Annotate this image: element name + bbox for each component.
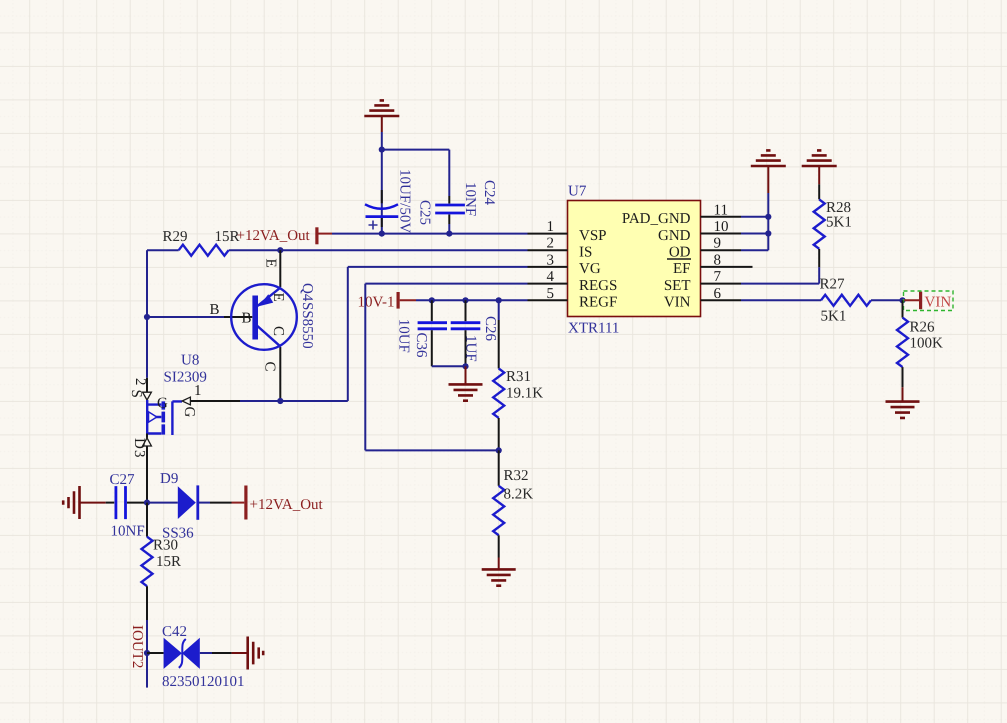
- svg-text:15R: 15R: [156, 554, 181, 570]
- svg-text:10UF: 10UF: [396, 319, 412, 353]
- wire: C24 bottom to VSP net: [448, 224, 450, 234]
- junction at Q4 emitter: [277, 247, 283, 253]
- junction below C26: [462, 363, 468, 369]
- resistor R31: [493, 300, 543, 450]
- diode D9: [160, 471, 232, 542]
- svg-text:10: 10: [714, 219, 729, 235]
- svg-text:C26: C26: [482, 316, 498, 342]
- resistor R26: [897, 300, 943, 387]
- svg-text:GND: GND: [658, 228, 691, 244]
- svg-text:100K: 100K: [910, 336, 944, 352]
- pin 8: [701, 252, 753, 268]
- svg-text:E: E: [270, 293, 286, 302]
- ground GND-top (above C25): [364, 100, 399, 132]
- power port 10V-1: [358, 292, 416, 311]
- capacitor C25 (polarized): [365, 169, 433, 233]
- resistor R27: [820, 277, 871, 325]
- power port +12VA_Out (top): [237, 227, 333, 244]
- svg-text:D9: D9: [160, 471, 178, 487]
- wire net IS: R29 to pin2: [280, 249, 527, 251]
- svg-text:U8: U8: [181, 353, 199, 369]
- svg-text:C: C: [261, 362, 277, 372]
- svg-text:G: G: [181, 407, 197, 418]
- TVS C42: [162, 624, 245, 690]
- pin 1: [528, 219, 568, 235]
- svg-text:19.1K: 19.1K: [506, 385, 543, 401]
- power port +12VA_Out (bottom): [232, 486, 324, 520]
- svg-text:8: 8: [714, 252, 722, 268]
- junction C26: [462, 297, 468, 303]
- junction at U8 drain / C27 / D9 / R30: [144, 500, 150, 506]
- svg-text:C: C: [270, 326, 286, 336]
- wire net VSP: port to pin1: [332, 233, 528, 235]
- pin 6: [701, 286, 742, 302]
- pin 4: [528, 269, 568, 285]
- svg-text:R29: R29: [163, 229, 188, 245]
- svg-text:D: D: [131, 438, 147, 449]
- svg-text:SET: SET: [664, 278, 691, 294]
- ground at C42 (right, rotated): [232, 637, 264, 670]
- svg-text:2: 2: [547, 236, 555, 252]
- svg-text:EF: EF: [673, 261, 691, 277]
- svg-text:VSP: VSP: [579, 228, 607, 244]
- ground at C27 (left, rotated): [63, 486, 105, 519]
- ground below R32: [482, 558, 516, 586]
- wire net VG: pin3 to Q4 collector / U8 gate: [240, 267, 528, 401]
- svg-text:5K1: 5K1: [821, 308, 847, 324]
- ground below R26: [886, 387, 920, 418]
- capacitor C24: [435, 180, 497, 224]
- svg-text:REGS: REGS: [579, 278, 617, 294]
- svg-text:VG: VG: [579, 261, 601, 277]
- wire pin6 to R27: [741, 299, 821, 301]
- junction C36: [429, 297, 435, 303]
- pin 7: [701, 269, 742, 285]
- junction at C25 top: [379, 147, 385, 153]
- wire C36 bottom to C26 bottom: [432, 365, 466, 367]
- svg-text:10V-1: 10V-1: [358, 295, 395, 311]
- wire: gnd stem to C25/C24 tee: [382, 132, 450, 234]
- svg-text:10NF: 10NF: [462, 182, 478, 216]
- junction R31: [496, 297, 502, 303]
- ground above R28: [802, 150, 837, 184]
- svg-text:PAD_GND: PAD_GND: [622, 211, 691, 227]
- ground below C26: [449, 366, 483, 400]
- junction C25 bottom: [379, 231, 385, 237]
- svg-text:VIN: VIN: [664, 295, 691, 311]
- transistor Q4: [210, 250, 316, 401]
- capacitor C27: [106, 472, 147, 540]
- junction pin11: [765, 214, 771, 220]
- svg-text:1UF: 1UF: [462, 335, 478, 362]
- resistor R32: [493, 450, 533, 557]
- svg-text:5: 5: [547, 286, 555, 302]
- capacitor C26: [451, 300, 498, 366]
- pin 9: [701, 236, 742, 252]
- svg-text:IOUT2: IOUT2: [129, 625, 145, 668]
- svg-text:6: 6: [714, 286, 722, 302]
- pin 11: [701, 202, 742, 218]
- svg-text:C27: C27: [110, 472, 136, 488]
- svg-text:C24: C24: [481, 180, 497, 206]
- svg-text:3: 3: [547, 252, 555, 268]
- svg-text:Q4: Q4: [299, 283, 315, 302]
- wire R28 to pin7: [741, 267, 819, 283]
- svg-text:OD: OD: [669, 245, 691, 261]
- svg-text:10UF/50V: 10UF/50V: [397, 169, 413, 233]
- svg-text:82350120101: 82350120101: [162, 674, 245, 690]
- junction VIN node: [899, 297, 905, 303]
- svg-text:C36: C36: [413, 333, 429, 359]
- capacitor C36: [396, 300, 448, 366]
- svg-text:1: 1: [194, 383, 202, 399]
- wire R27 to VIN node: [871, 299, 903, 301]
- svg-text:1: 1: [547, 219, 555, 235]
- svg-text:SS8550: SS8550: [299, 302, 315, 349]
- svg-text:4: 4: [547, 269, 555, 285]
- junction C24 bottom: [446, 231, 452, 237]
- svg-text:3: 3: [131, 450, 147, 458]
- wire: base of Q4: [147, 316, 224, 318]
- resistor R28: [814, 184, 852, 267]
- junction at Q4 base rail: [144, 314, 150, 320]
- svg-text:R31: R31: [506, 369, 531, 385]
- wire to C42: [147, 652, 164, 654]
- pin 5: [528, 286, 568, 302]
- ground above GND rail: [751, 150, 786, 193]
- svg-text:5K1: 5K1: [826, 214, 852, 230]
- svg-text:U7: U7: [568, 184, 587, 200]
- pin 3: [528, 252, 568, 268]
- wire to IOUT2: [146, 620, 148, 688]
- junction at C42: [144, 650, 150, 656]
- svg-text:C25: C25: [417, 200, 433, 225]
- junction Q4 collector: [277, 398, 283, 404]
- svg-text:+12VA_Out: +12VA_Out: [250, 497, 324, 513]
- svg-text:10NF: 10NF: [111, 524, 145, 540]
- svg-text:B: B: [210, 302, 220, 318]
- svg-text:IS: IS: [579, 245, 592, 261]
- IC U7 XTR111: [568, 184, 701, 337]
- svg-text:REGF: REGF: [579, 295, 617, 311]
- svg-text:15R: 15R: [215, 229, 240, 245]
- wire net REGF: 10V-1 to pin5: [416, 299, 528, 301]
- pin 10: [701, 219, 742, 235]
- svg-text:S: S: [128, 390, 144, 398]
- svg-text:8.2K: 8.2K: [504, 487, 534, 503]
- svg-text:R26: R26: [910, 320, 936, 336]
- wire: left rail R29 to U8 source: [146, 250, 148, 378]
- resistor R29: [147, 229, 280, 256]
- svg-text:9: 9: [714, 236, 722, 252]
- port VIN with compile-mask box: [903, 291, 954, 311]
- svg-text:E: E: [263, 259, 279, 268]
- svg-text:XTR111: XTR111: [568, 321, 619, 337]
- svg-text:2: 2: [132, 378, 148, 386]
- pin 2: [528, 236, 568, 252]
- junction R31/R32: [496, 447, 502, 453]
- wire net GND: pins 11,10,9 to ground rail: [741, 193, 768, 250]
- mosfet U8: [128, 353, 240, 503]
- resistor R30: [142, 503, 182, 620]
- svg-text:+12VA_Out: +12VA_Out: [237, 228, 311, 244]
- svg-text:11: 11: [714, 202, 728, 218]
- svg-text:R30: R30: [153, 538, 178, 554]
- svg-text:VIN: VIN: [925, 295, 952, 311]
- junction pin10: [765, 230, 771, 236]
- wire to D9: [147, 502, 178, 504]
- svg-text:7: 7: [714, 269, 722, 285]
- svg-text:B: B: [242, 311, 252, 327]
- svg-text:R27: R27: [820, 277, 846, 293]
- wire C42 to ground: [200, 652, 212, 654]
- svg-text:G: G: [157, 396, 168, 412]
- svg-text:R32: R32: [504, 468, 529, 484]
- svg-text:C42: C42: [162, 624, 187, 640]
- wire net REGS: pin4 loop to R31/R32: [365, 284, 527, 451]
